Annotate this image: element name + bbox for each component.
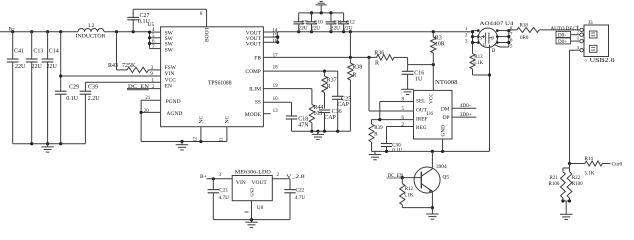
wire MODE stub [263,113,270,115]
svg-text:R: R [327,84,331,90]
pin number 2 REG [402,123,405,128]
wire IREF line [372,118,414,121]
svg-text:R14: R14 [585,157,594,162]
svg-text:IREF: IREF [416,117,428,123]
transistor Q5 3904 [414,164,449,193]
node Cur0 net label [612,161,623,167]
svg-text:FSW: FSW [165,65,177,71]
svg-text:22U: 22U [299,25,308,31]
op-amp U6 NT6008 body [414,80,458,139]
svg-text:GND: GND [250,188,255,197]
wire FB to U6 OUT link [369,57,414,111]
svg-text:21: 21 [145,96,151,101]
svg-text:103: 103 [313,111,322,117]
svg-text:3: 3 [465,39,468,44]
wire J3 pin4 to sense [570,50,580,163]
svg-text:DM: DM [441,106,450,112]
node V_2.8 net label [286,174,305,180]
svg-text:SW: SW [165,47,174,53]
node 4D0- net label [460,103,471,109]
svg-text:7: 7 [152,45,155,50]
svg-text:3904: 3904 [436,164,447,170]
pin number 20 AGND [144,109,150,114]
svg-text:47N: 47N [298,122,309,128]
svg-text:5.1K: 5.1K [473,61,483,66]
svg-text:OUT: OUT [416,108,428,114]
wire U4 drain stubs pins 8 7 6 5 [494,29,510,47]
ground LDO [245,220,258,228]
resistor R18 0R0 [517,24,539,41]
svg-text:R: R [352,73,356,79]
svg-text:R: R [375,61,379,67]
svg-text:DC_EN: DC_EN [128,84,149,90]
capacitor C30 0.1U [381,143,403,153]
wire FB line [263,56,435,66]
svg-text:8: 8 [510,27,513,32]
svg-text:20: 20 [144,109,150,114]
capacitor C13 22U [26,32,44,144]
svg-text:R36: R36 [374,50,384,56]
pin numbers J3 [577,25,580,50]
capacitor C12 22U [338,13,355,32]
svg-text:C29: C29 [69,85,79,91]
svg-text:COMP: COMP [245,69,261,75]
svg-text:R: R [374,133,378,138]
svg-text:4.7U: 4.7U [295,195,306,201]
svg-text:VCC: VCC [429,93,435,104]
wire input ground rail [13,142,86,145]
pin name VCC rotated U6 [429,93,435,104]
svg-text:L2: L2 [88,23,94,29]
svg-text:VCC: VCC [165,77,177,83]
wire VOUT pins 14 15 16 [263,32,279,44]
svg-text:22U: 22U [47,64,58,70]
resistor R36 [374,50,394,66]
pin numbers 14 15 16 [272,28,278,44]
svg-text:C30: C30 [392,143,401,148]
pin number 8 SEL [402,97,405,102]
pin number 17 FB [273,53,279,58]
svg-text:AO4407 U4: AO4407 U4 [480,21,514,27]
wire DP stub [452,116,476,118]
pin number 8 BOOT [200,12,203,17]
svg-text:4: 4 [577,45,580,50]
svg-text:C21: C21 [219,188,228,194]
capacitor C14 22U [42,32,59,144]
wire Q5 base [401,176,422,179]
pin names NC rotated [199,116,231,124]
svg-text:MODE: MODE [245,112,262,118]
svg-text:o: o [585,58,588,63]
capacitor C9 22U [293,13,308,32]
svg-text:D0+: D0+ [558,40,567,45]
svg-text:R21: R21 [550,176,559,181]
pin number 3 LDO [219,173,222,178]
svg-text:19: 19 [273,84,279,89]
svg-text:R43: R43 [108,63,118,69]
svg-text:R18: R18 [520,24,529,29]
resistor R37 [322,71,337,109]
pin number 4 U4 gate drain label [492,49,496,54]
wire SW ladder pins 4-7 [148,30,161,48]
svg-text:C41: C41 [14,49,24,55]
svg-text:R12: R12 [405,187,414,192]
svg-text:Q5: Q5 [443,175,450,181]
svg-text:3: 3 [577,36,579,41]
wire sense node [568,162,585,165]
resistor R14 5.1K [585,157,611,177]
wire LDO ground rail [213,201,290,222]
wire B+ to LDO VIN [207,177,233,180]
transistor U4 AO4407 label [480,21,514,27]
svg-text:PGND: PGND [166,99,181,105]
resistor R13 5.1K [470,43,490,76]
svg-text:B+: B+ [200,174,207,180]
svg-text:R22: R22 [572,176,581,181]
svg-text:VOUT: VOUT [246,42,262,48]
svg-text:6: 6 [510,39,513,44]
pin number 10 SS [273,97,279,102]
ground sense resistors [560,201,573,220]
svg-text:4.7U: 4.7U [219,195,230,201]
svg-text:C13: C13 [33,49,43,55]
svg-text:5: 5 [510,45,513,50]
svg-text:GND: GND [441,125,447,137]
capacitor C27 0.1U boot [127,9,206,31]
node DC_EN enable net [127,84,161,90]
resistor R44 103 [309,104,323,131]
svg-text:1U: 1U [415,77,423,83]
resistor R43 725K [108,32,161,73]
svg-text:TPS61088: TPS61088 [208,81,232,87]
capacitor C21 4.7U [208,179,230,220]
svg-text:U6: U6 [427,111,434,117]
pin name BOOT rotated [205,26,211,42]
svg-text:R38: R38 [352,65,362,71]
node 3D0+ net label [460,112,472,118]
svg-text:22U: 22U [343,25,352,31]
svg-text:13: 13 [273,109,279,114]
svg-text:VIN: VIN [236,180,246,186]
svg-text:11: 11 [220,137,225,142]
svg-text:Cur0: Cur0 [612,161,623,167]
svg-text:FB: FB [254,55,261,61]
svg-text:R37: R37 [327,78,337,84]
svg-text:C14: C14 [49,49,59,55]
capacitor C29 0.1U [55,85,79,144]
svg-text:R39: R39 [374,126,383,131]
wire U6 GND stub [442,139,444,151]
svg-text:SS: SS [255,100,261,106]
pin number 2 EN [152,85,155,90]
op-amp U5 TPS61088 boost converter body [148,22,264,127]
svg-text:U5: U5 [148,22,155,28]
svg-text:22U: 22U [32,64,43,70]
node B+ at LDO [200,174,207,180]
resistor R22 R100 [567,172,583,198]
wire COMP line [263,70,337,73]
svg-text:NC: NC [225,116,231,124]
svg-text:5.1K: 5.1K [404,194,414,199]
transistor U4 body circle [478,28,497,47]
svg-text:C39: C39 [88,85,98,91]
svg-text:V_2.8: V_2.8 [286,174,305,180]
pin number 6 IREF [402,116,405,121]
svg-text:R100: R100 [572,182,583,187]
node AUTO DECT net label [551,26,580,32]
svg-text:4D0-: 4D0- [460,103,471,109]
pin number 9 VIN [150,72,153,77]
resistor R12 5.1K [400,178,433,208]
svg-text:2: 2 [577,29,579,34]
svg-text:7: 7 [510,33,513,38]
node USB2.0 label [585,58,615,64]
capacitor C41 22U [7,32,26,144]
ground compensation block [312,131,325,139]
resistor R3 10R [431,32,445,65]
wire VIN drop from B+ rail [59,32,161,91]
svg-text:USB2.0: USB2.0 [590,58,615,64]
svg-text:3D0+: 3D0+ [460,112,472,118]
pin number 5 OUT [402,107,405,112]
svg-text:INDUCTOR: INDUCTOR [76,33,106,39]
svg-text:725K: 725K [122,63,136,69]
svg-text:8: 8 [200,12,203,17]
svg-text:18: 18 [273,66,279,71]
svg-text:U8: U8 [257,205,264,211]
svg-text:CAP: CAP [324,115,336,121]
connector J3 USB socket [580,20,609,57]
resistor R39 R [369,120,383,152]
wire B+ rail right of inductor [104,31,150,33]
capacitor C18 47N [286,116,310,131]
pin numbers 8 7 6 5 U4 [510,27,513,50]
svg-text:16: 16 [272,39,278,44]
capacitor C36 CAP [319,109,342,131]
pin names U5 left [165,30,183,117]
svg-text:D: D [491,36,494,41]
wire VOUT rail [278,30,473,33]
inductor L2 [76,23,106,39]
svg-text:2: 2 [277,173,280,178]
ground input block [41,144,54,152]
svg-text:5.1K: 5.1K [585,172,595,177]
svg-text:0.1U: 0.1U [66,96,79,102]
junction dots on B+ rail [11,30,135,33]
pin number 21 PGND [145,96,151,101]
wire compensation ground rail [292,130,351,133]
svg-text:BOOT: BOOT [205,26,211,42]
ground Q5 emitter [426,214,439,220]
svg-text:0R0: 0R0 [520,36,529,41]
wire U4 source ladder pins 1 2 3 [471,29,480,44]
svg-text:NC: NC [199,116,205,124]
wire SEL line [380,102,414,120]
svg-text:ME6306-LDO: ME6306-LDO [235,170,271,176]
op-amp U8 ME6306-LDO body [232,170,272,211]
svg-text:NT6008: NT6008 [435,80,458,86]
svg-text:VIN: VIN [165,71,175,77]
wire B+ rail left [0,31,78,33]
svg-text:AGND: AGND [167,111,183,117]
svg-text:VOUT: VOUT [252,180,268,186]
pin names U6 [416,99,450,132]
wire VCC line [85,81,160,83]
node B+ input terminal [9,26,15,32]
svg-text:14: 14 [272,28,278,33]
svg-text:2: 2 [402,123,405,128]
ground U5 power ground [176,142,189,150]
wire REG line [387,127,414,144]
svg-text:2.2U: 2.2U [88,96,101,102]
svg-text:C22: C22 [296,188,305,194]
svg-text:22U: 22U [311,25,320,31]
capacitor C39 2.2U [80,82,101,144]
node D0+ flag [556,38,580,45]
capacitor C25 CAP [332,71,351,131]
wire output cap top rail [299,11,344,14]
wire sense split [561,164,571,203]
svg-text:D: D [492,49,496,54]
pin names U5 right [245,30,262,118]
wire DM stub [452,107,476,109]
svg-text:ILIM: ILIM [249,87,261,93]
svg-text:22U: 22U [15,64,26,70]
ground C16 [401,87,414,94]
pin numbers 4 5 6 7 [152,28,155,50]
wire LDO VOUT [272,178,290,180]
svg-text:22U: 22U [331,25,340,31]
wire U4 gate down [488,45,491,152]
pin numbers 1 2 3 U4 [465,27,468,44]
wire Q5 emitter [431,191,434,213]
pin number 3 FSW [151,66,154,71]
svg-text:R13: R13 [474,55,483,60]
wire Q5 collector [431,151,433,168]
wire U4 to R18 [509,29,517,31]
svg-text:EN: EN [165,84,172,90]
capacitor C10 22U [306,13,323,32]
pin number 13 MODE [273,109,279,114]
svg-text:10R: 10R [435,41,445,47]
wire control ground rail [372,150,490,153]
pin number 19 ILIM [273,84,279,89]
svg-text:3: 3 [219,173,222,178]
ground control rail [369,151,382,159]
node DC_EN at Q5 [387,173,405,179]
svg-text:CAP: CAP [337,102,349,108]
pin numbers 12 11 rotated [194,137,225,143]
svg-text:10: 10 [273,97,279,102]
resistor R38 [348,32,363,132]
wire SS line [263,102,291,116]
node D0- flag [556,31,580,38]
ground output caps inverted [316,2,327,13]
wire NC pin stubs [201,127,227,142]
pin name GND rotated U6 [441,125,447,137]
pin number 1 VCC [152,78,155,83]
svg-text:REG: REG [416,125,427,131]
pin number 2 LDO [277,173,280,178]
pin number 18 COMP [273,66,279,71]
svg-text:R100: R100 [549,182,560,187]
svg-text:SEL: SEL [416,99,425,105]
wire R18 to J3 pin1 [539,29,580,31]
capacitor C16 1U [402,65,425,88]
wire ILIM line [263,89,312,105]
svg-text:DP: DP [443,115,450,121]
svg-text:2: 2 [465,33,468,38]
capacitor C22 4.7U [284,179,305,220]
svg-text:12: 12 [194,137,199,143]
wire PGND AGND to ground [140,100,227,143]
capacitor C11 22U [326,13,343,32]
resistor R21 R100 [549,172,566,198]
svg-text:G: G [483,42,486,47]
wire R3 to U6 VCC [432,65,434,91]
